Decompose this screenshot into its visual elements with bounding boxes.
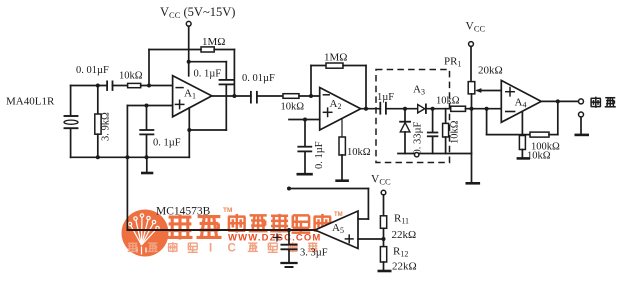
- op-amp A2: [320, 88, 361, 131]
- node A1 inverting input: [147, 84, 151, 88]
- terminal Vcc top: [186, 21, 191, 26]
- wire: [470, 46, 472, 81]
- wire reference riser: [126, 106, 128, 231]
- capacitor 1uF coupling: [377, 92, 394, 114]
- label Vcc supply: [160, 5, 235, 20]
- wire: [383, 262, 385, 270]
- wire: [549, 134, 558, 136]
- wire: [365, 66, 367, 109]
- capacitor 0.1uF A1 bias: [140, 106, 181, 158]
- wire: [70, 128, 72, 157]
- node cap-rail: [145, 155, 149, 159]
- diode shunt: [400, 109, 410, 154]
- node A1 output: [232, 94, 236, 98]
- svg-text:MA40L1R: MA40L1R: [6, 96, 55, 108]
- wire: [225, 62, 227, 79]
- watermark dzsc.com logo: [122, 207, 343, 257]
- svg-text:1MΩ: 1MΩ: [202, 36, 225, 48]
- node A1 plus: [145, 104, 149, 108]
- wire A5 feedback rail: [289, 188, 368, 190]
- resistor 10k A1 input: [119, 71, 143, 88]
- svg-text:TM: TM: [223, 207, 232, 214]
- wire reference bus: [127, 229, 315, 231]
- potentiometer PR1 20k: [444, 56, 503, 94]
- wire: [487, 134, 530, 136]
- resistor R12 22k: [380, 246, 416, 273]
- wire: [188, 62, 190, 76]
- wire: [386, 108, 418, 110]
- wire: [71, 85, 107, 87]
- node rail crossing: [125, 155, 129, 159]
- terminal output return: [579, 112, 584, 117]
- ground: [467, 182, 479, 185]
- capacitor 0.01uF input: [76, 65, 113, 90]
- wire: [141, 85, 173, 87]
- wire: [189, 61, 227, 63]
- ground: [337, 179, 348, 182]
- wire: [383, 195, 385, 216]
- detector dashed box: [376, 70, 450, 163]
- node potentiometer tap: [470, 107, 474, 111]
- op-amp A1: [173, 76, 212, 117]
- capacitor 0.33uF: [412, 109, 437, 155]
- resistor 3.9k: [95, 86, 112, 158]
- label Vcc R11: [371, 174, 391, 187]
- ground: [282, 263, 297, 267]
- resistor 10k A4 ground: [519, 111, 550, 161]
- capacitor 0.1uF A2 bias: [298, 120, 325, 174]
- wire: [486, 109, 488, 135]
- node shunt diode tap: [403, 107, 407, 111]
- ground: [576, 134, 588, 137]
- svg-text:1MΩ: 1MΩ: [324, 52, 347, 64]
- wire: [70, 86, 72, 115]
- svg-text:10kΩ: 10kΩ: [450, 120, 461, 144]
- svg-text:10kΩ: 10kΩ: [281, 102, 305, 113]
- wire: [466, 108, 502, 110]
- resistor 10k detector shunt: [443, 109, 461, 154]
- wire: [113, 85, 128, 87]
- svg-text:22kΩ: 22kΩ: [392, 229, 417, 241]
- svg-text:3. 3µF: 3. 3µF: [300, 248, 328, 259]
- resistor 10k A2 input: [281, 94, 305, 113]
- wire: [189, 129, 226, 131]
- node A2 output: [364, 107, 368, 111]
- ground: [298, 173, 312, 176]
- wire: [148, 50, 150, 86]
- label MC14573B: [156, 206, 211, 218]
- node 3.9k bottom: [96, 155, 100, 159]
- svg-text:10kΩ: 10kΩ: [347, 147, 371, 158]
- resistor 100k A4 feedback: [530, 132, 560, 152]
- terminal detector pin: [415, 153, 419, 157]
- svg-text:0. 01µF: 0. 01µF: [76, 65, 109, 76]
- node A1 pin: [187, 128, 191, 132]
- wire: [149, 49, 201, 51]
- svg-text:C: C: [228, 243, 236, 255]
- wire: [188, 26, 190, 76]
- wire: [233, 50, 235, 97]
- resistor 1M A2 feedback: [311, 52, 366, 69]
- wire: [383, 228, 385, 246]
- diode A3 series: [413, 84, 426, 114]
- svg-text:TM: TM: [334, 212, 343, 218]
- wire A1 plus input: [127, 105, 172, 107]
- node Vcc-A1: [187, 60, 191, 64]
- resistor R11 22k: [380, 213, 416, 242]
- wire ground rail: [71, 156, 190, 158]
- node A2 plus: [303, 118, 307, 122]
- svg-text:3. 9kΩ: 3. 9kΩ: [101, 112, 112, 141]
- op-amp A4: [501, 80, 541, 122]
- wire: [225, 85, 227, 130]
- node detector cap tap: [431, 107, 435, 111]
- svg-text:0. 1µF: 0. 1µF: [314, 141, 325, 169]
- wire: [426, 108, 451, 110]
- wire: [471, 94, 473, 182]
- wire: [358, 218, 368, 220]
- capacitor 3.3uF: [274, 230, 328, 262]
- wire A1 output: [212, 95, 251, 97]
- op-amp A5: [315, 211, 358, 249]
- ground: [142, 157, 152, 173]
- capacitor 0.1uF A1 supply: [194, 69, 234, 85]
- svg-text:MC14573B: MC14573B: [156, 206, 211, 218]
- wire: [367, 189, 369, 220]
- terminal Vcc R11: [381, 190, 386, 195]
- wire: [580, 117, 582, 134]
- terminal output: [579, 99, 584, 104]
- node A5 output: [287, 228, 291, 232]
- wire A2 plus input: [289, 119, 320, 121]
- svg-text:0. 1µF: 0. 1µF: [194, 69, 222, 80]
- wire A2 output: [361, 108, 381, 110]
- label output: [591, 97, 616, 108]
- svg-text:22kΩ: 22kΩ: [392, 261, 417, 273]
- ground: [379, 270, 390, 273]
- capacitor 0.01uF coupling: [242, 73, 275, 103]
- wire: [310, 66, 312, 97]
- wire: [557, 101, 559, 134]
- node A2 inverting input: [309, 94, 313, 98]
- wire detector bottom rail: [398, 153, 472, 155]
- svg-text:I: I: [209, 243, 212, 255]
- resistor 10k detector output: [436, 96, 466, 112]
- svg-text:0. 1µF: 0. 1µF: [153, 138, 181, 149]
- ground: [518, 157, 529, 160]
- label Vcc A4: [466, 21, 486, 34]
- wire A1 bottom pin: [188, 108, 190, 158]
- terminal Vcc A4: [469, 42, 474, 47]
- wire: [299, 95, 320, 97]
- wire A5 plus input: [358, 238, 384, 240]
- transducer MA40L1R: [6, 96, 78, 129]
- node R11 R12 junction: [382, 237, 386, 241]
- svg-text:1µF: 1µF: [377, 92, 394, 103]
- wire: [257, 95, 283, 97]
- svg-text:10kΩ: 10kΩ: [436, 96, 460, 107]
- node 3.9k top: [96, 84, 100, 88]
- svg-text:10kΩ: 10kΩ: [119, 71, 143, 82]
- svg-text:20kΩ: 20kΩ: [478, 65, 503, 77]
- node A5 feedback: [287, 187, 291, 191]
- node A4 output: [556, 99, 560, 103]
- svg-text:0. 33µF: 0. 33µF: [412, 121, 423, 154]
- resistor 1M A1 feedback: [201, 36, 225, 52]
- node A4 feedback tap: [485, 107, 489, 111]
- wire A4 output: [541, 100, 578, 102]
- wire: [214, 49, 234, 51]
- svg-text:10kΩ: 10kΩ: [527, 151, 551, 162]
- svg-text:0. 01µF: 0. 01µF: [242, 73, 275, 84]
- resistor 10k A2 bottom: [339, 119, 371, 180]
